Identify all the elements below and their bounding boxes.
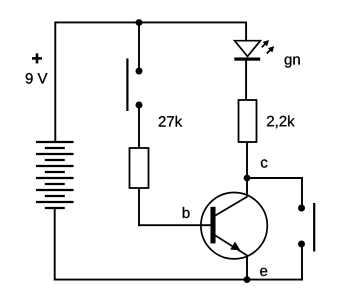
label +	[32, 53, 42, 63]
label gn	[285, 56, 300, 67]
node c	[244, 175, 251, 182]
wire R2 to node c	[246, 142, 248, 178]
wire node c to switch S2	[246, 177, 303, 179]
LED D1 arrow 1	[262, 40, 269, 47]
transistor Q1 emitter arrow	[231, 242, 241, 250]
wire base horizontal	[138, 224, 211, 226]
wire emitter vertical	[246, 255, 248, 280]
wire S2 bottom down	[301, 244, 303, 281]
wire left vertical	[54, 22, 56, 143]
switch S1 actuator bar	[126, 58, 128, 111]
LED D1 arrow 2	[267, 46, 274, 53]
switch S2 actuator bar	[313, 203, 315, 252]
switch S2 bottom contact	[298, 241, 305, 248]
wire battery bottom	[54, 208, 56, 281]
resistor R2 2,2k body	[239, 100, 257, 142]
wire collector vertical	[246, 178, 248, 197]
node junction top	[136, 19, 143, 26]
transistor Q1 emitter stroke	[215, 235, 248, 256]
wire right branch top	[245, 22, 247, 42]
label b	[183, 207, 190, 218]
wire LED to R2	[245, 61, 247, 101]
transistor Q1 collector stroke	[215, 197, 248, 216]
label 9 V	[26, 73, 48, 84]
wire bottom horizontal	[54, 279, 303, 281]
wire switch to resistor R1	[138, 105, 140, 148]
wire to switch S1	[138, 23, 140, 72]
node e	[244, 276, 251, 283]
battery B1	[36, 142, 74, 208]
label 2,2k	[267, 115, 295, 128]
wire R1 down	[138, 188, 140, 226]
wire down to S2 top	[301, 177, 303, 208]
LED D1 cathode bar	[235, 58, 261, 61]
switch S2 top contact	[298, 205, 305, 212]
wire top horizontal	[54, 21, 247, 23]
transistor Q1 circle	[201, 193, 267, 259]
switch S1 top contact	[136, 68, 143, 75]
label c	[261, 159, 267, 167]
LED D1 triangle	[235, 41, 261, 57]
switch S1 bottom contact	[136, 102, 143, 109]
label 27k	[159, 116, 182, 127]
transistor Q1 base bar	[211, 207, 216, 243]
label e	[260, 268, 267, 276]
resistor R1 27k body	[130, 148, 149, 188]
